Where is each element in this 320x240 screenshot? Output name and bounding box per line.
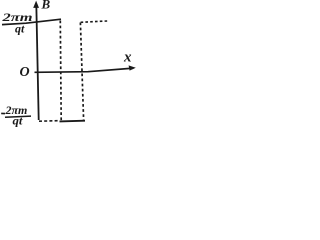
x axis	[35, 68, 134, 72]
top dashed line	[81, 21, 109, 22]
bottom solid line	[60, 120, 86, 123]
dashed vertical 2	[80, 23, 83, 120]
top level line (fraction bar + solid segment)	[2, 19, 61, 24]
B axis	[36, 4, 38, 120]
x axis arrowhead	[129, 65, 136, 70]
svg-text:O: O	[20, 65, 30, 80]
svg-text:qt: qt	[15, 22, 25, 36]
svg-text:qt: qt	[13, 114, 24, 128]
bottom label fraction bar	[5, 116, 31, 117]
bottom-left dashed line	[39, 120, 59, 123]
dashed vertical 1	[59, 21, 62, 121]
bottom label minus sign	[1, 112, 5, 114]
svg-text:B: B	[41, 0, 51, 11]
B axis arrowhead	[33, 1, 39, 8]
svg-text:x: x	[123, 50, 132, 66]
